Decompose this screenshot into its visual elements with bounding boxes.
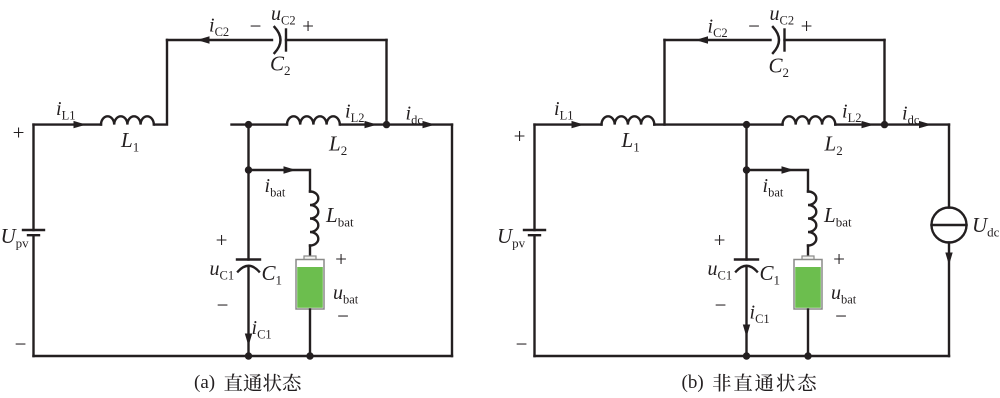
svg-text:+: + [514, 124, 526, 148]
svg-text:uC2: uC2 [770, 3, 795, 28]
current arrow i_L1 b [572, 121, 585, 128]
svg-text:ibat: ibat [265, 175, 286, 200]
junction node output b [881, 121, 888, 128]
inductor L2 b [783, 116, 836, 124]
svg-text:−: − [835, 304, 847, 328]
wire left vertical from source a [32, 125, 34, 230]
svg-text:−: − [715, 293, 727, 317]
svg-text:(b): (b) [682, 372, 704, 393]
current arrow i_bat b [782, 166, 795, 173]
svg-text:+: + [302, 14, 314, 38]
current arrow i_dc a [423, 121, 436, 128]
svg-text:L1: L1 [120, 128, 139, 155]
svg-text:uC1: uC1 [708, 258, 733, 283]
wire L1 to node b [654, 123, 782, 125]
wire right vertical lower b [948, 243, 950, 357]
svg-text:iC1: iC1 [750, 302, 770, 327]
wire vertical up to C2 rail b [663, 40, 665, 125]
wire vertical C2 to output node a [385, 40, 387, 125]
current arrow i_bat a [284, 166, 297, 173]
storage battery icon a [304, 256, 316, 261]
current arrow i_L2 a [365, 121, 378, 128]
svg-text:idc: idc [406, 103, 424, 128]
svg-text:+: + [714, 228, 726, 252]
svg-text:uC1: uC1 [210, 258, 235, 283]
inductor L_bat a [310, 192, 318, 246]
svg-text:iC2: iC2 [708, 16, 728, 41]
wire i_bat branch a [249, 170, 311, 192]
load source U_dc bar b [932, 224, 967, 226]
junction node battery tap a [245, 166, 252, 173]
svg-text:L1: L1 [621, 128, 640, 155]
svg-text:ubat: ubat [333, 282, 359, 307]
svg-text:L2: L2 [328, 132, 347, 159]
wire C2 rail left b [665, 39, 771, 41]
capacitor C1 a [237, 258, 260, 260]
current arrow i_C2 b [696, 36, 709, 43]
wire L1 to C2 branch corner a [155, 40, 167, 125]
junction node output a [383, 121, 390, 128]
capacitor C2 a [285, 30, 287, 51]
wire input rail b [535, 123, 602, 125]
svg-text:iC1: iC1 [252, 317, 272, 342]
wire L2 to output b [835, 123, 949, 125]
wire L_bat to battery a [309, 246, 311, 257]
current arrow i_L2 b [862, 121, 875, 128]
inductor L2 a [287, 116, 340, 124]
wire bottom rail a [34, 355, 453, 357]
svg-text:−: − [516, 332, 528, 356]
inductor L1 b [602, 116, 655, 124]
svg-text:C1: C1 [760, 261, 781, 288]
svg-text:idc: idc [902, 103, 920, 128]
svg-text:+: + [216, 228, 228, 252]
wire source to bottom rail b [533, 235, 535, 356]
load source U_dc circle b [932, 208, 967, 243]
svg-text:+: + [801, 14, 813, 38]
junction node C1 bottom b [743, 352, 750, 359]
junction node battery bottom b [804, 352, 811, 359]
wire C1 branch lower b [745, 267, 747, 356]
junction node battery bottom a [306, 352, 313, 359]
svg-text:L2: L2 [824, 132, 843, 159]
svg-text:−: − [217, 293, 229, 317]
svg-text:Upv: Upv [497, 224, 526, 251]
wire right vertical upper b [948, 125, 950, 208]
svg-text:iL2: iL2 [345, 101, 364, 126]
dc source U_pv a long plate [23, 229, 44, 231]
wire L_bat to battery b [807, 246, 809, 257]
inductor L1 a [101, 116, 154, 124]
svg-text:−: − [15, 332, 27, 356]
junction node L2 input a [245, 121, 252, 128]
wire C1 branch upper b [745, 125, 747, 260]
dc source U_pv b short plate [529, 234, 540, 236]
dc source U_pv a short plate [28, 234, 39, 236]
wire C1 branch upper a [247, 125, 249, 260]
wire bottom rail b [535, 355, 950, 357]
wire rail stub to node a [232, 123, 288, 125]
svg-text:iL2: iL2 [842, 101, 861, 126]
capacitor C1 b [735, 258, 758, 260]
wire C2 rail right a [286, 39, 387, 41]
svg-text:+: + [833, 247, 845, 271]
current arrow i_C1 a [245, 334, 252, 347]
svg-text:iC2: iC2 [209, 15, 229, 40]
svg-text:uC2: uC2 [271, 3, 296, 28]
svg-text:Lbat: Lbat [325, 203, 354, 230]
junction node C1 bottom a [245, 352, 252, 359]
wire battery to bottom rail b [807, 310, 809, 357]
svg-text:iL1: iL1 [554, 98, 573, 123]
wire i_bat branch b [747, 170, 809, 192]
wire L2 to output a [341, 123, 452, 125]
svg-text:(a): (a) [194, 372, 215, 393]
svg-text:Upv: Upv [1, 224, 30, 251]
junction node battery tap b [743, 166, 750, 173]
svg-text:ibat: ibat [763, 175, 784, 200]
svg-text:Udc: Udc [972, 213, 1000, 240]
wire vertical C2 to output node b [883, 40, 885, 125]
svg-text:C2: C2 [270, 52, 291, 79]
current arrow i_L1 a [74, 121, 87, 128]
wire C2 rail left a [167, 39, 272, 41]
inductor L_bat b [808, 192, 816, 246]
wire source to bottom rail a [32, 235, 34, 356]
storage battery icon b [802, 256, 814, 261]
wire right vertical a [451, 125, 453, 356]
svg-text:C2: C2 [769, 54, 790, 81]
dc source U_pv b long plate [524, 229, 545, 231]
current arrow down output b [945, 253, 952, 266]
svg-text:−: − [337, 304, 349, 328]
svg-text:Lbat: Lbat [823, 203, 852, 230]
junction node L2 input b [743, 121, 750, 128]
wire battery to bottom rail a [309, 310, 311, 357]
svg-text:ubat: ubat [831, 282, 857, 307]
svg-text:−: − [250, 14, 262, 38]
wire C2 rail right b [785, 39, 885, 41]
wire input rail a [34, 123, 102, 125]
svg-text:+: + [335, 247, 347, 271]
svg-text:iL1: iL1 [56, 98, 75, 123]
wire left vertical from source b [533, 125, 535, 230]
svg-text:C1: C1 [262, 261, 283, 288]
current arrow i_dc b [919, 121, 932, 128]
current arrow i_C2 a [197, 36, 210, 43]
wire C1 branch lower a [247, 267, 249, 356]
svg-text:+: + [13, 121, 25, 145]
capacitor C2 b [783, 30, 785, 51]
current arrow i_C1 b [743, 325, 750, 338]
svg-text:−: − [748, 14, 760, 38]
